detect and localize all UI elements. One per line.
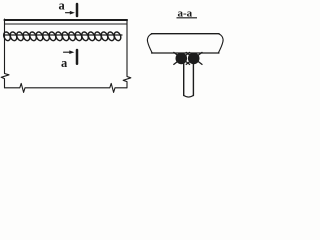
flange section bottom edge [152,52,220,54]
section title underline [177,17,198,19]
section mark a (top): arrow [66,11,75,15]
beam left edge with break zigzag [1,19,9,88]
beam right edge with break zigzag [123,20,131,88]
svg-text:a: a [59,0,66,12]
beam bottom edge with two break zigzags [5,83,128,92]
svg-text:a: a [61,56,68,70]
weld symbol right (blackened circle with X) [186,52,202,64]
weld symbol left (blackened circle with X) [174,52,190,64]
weld seam axis line [5,34,122,36]
flange right break curve [218,34,223,53]
beam inner edge line [5,23,128,25]
web section left edge [183,63,185,96]
section mark a (bottom): thick cut bar [76,50,79,64]
weld seam coil (row of overlapping loops) [2,31,122,42]
web bottom break curve [184,95,194,97]
flange section top edge [152,33,220,35]
section mark a (top): thick cut bar [76,4,79,16]
web section right edge [192,63,194,96]
beam top edge (plan view, thick) [5,19,128,21]
flange left break curve [147,34,152,53]
section mark a (bottom): arrow [64,50,75,54]
